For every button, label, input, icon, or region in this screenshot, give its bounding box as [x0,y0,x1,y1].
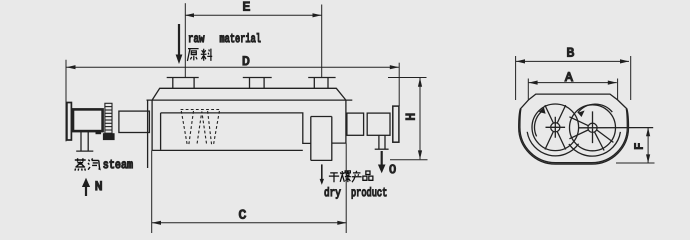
svg-text:raw: raw [188,32,205,46]
top port 1 flange cap [167,77,199,79]
drive shaft housing [119,111,149,132]
motor gearbox body [73,109,103,131]
svg-text:steam: steam [103,158,133,172]
dimension F bottom reference line [616,162,655,164]
dimension F line [646,128,650,163]
svg-text:B: B [567,46,575,61]
dimension A right extension line [617,79,619,100]
svg-text:H: H [404,113,419,121]
left rotor rotation arrow [535,111,543,136]
dimension E line [185,13,322,17]
svg-text:material: material [220,32,261,46]
discharge chute box [311,117,346,161]
dimension D right extension line [398,63,400,106]
dimension H bottom reference line [390,159,428,161]
dashed screw funnel left V [181,111,193,145]
steam inlet flange plate [67,103,72,141]
dimension B right extension line [630,56,632,100]
dimension C line [152,221,347,225]
svg-text:A: A [565,70,573,85]
left end plate [147,100,149,168]
dashed screw top line [181,109,221,111]
vapor outlet arrow O [378,151,386,173]
dimension D line [67,65,399,69]
left rotor hub [551,123,560,132]
motor legs [81,132,88,152]
steam arrow N [82,178,90,196]
right rotor left paddle [569,117,588,139]
svg-text:E: E [243,0,251,15]
dimension B left extension line [515,56,517,100]
top port 3 flange cap [308,77,335,79]
raw material inlet arrow [176,24,183,64]
right rotor crosshair / centre line to F [579,111,654,143]
label 原料 (raw material CN) [187,49,212,61]
casing inner wall [520,109,627,163]
dimension D left extension line [65,60,67,142]
right support box [367,113,390,135]
motor foot line [76,150,93,152]
dimension E left extension line [184,3,186,77]
dimension H top reference line [388,77,427,79]
right support foot line [375,148,389,150]
svg-text:C: C [239,208,247,223]
gear stack ladder [105,103,112,133]
svg-text:D: D [242,54,250,69]
inner panel rectangle [161,113,311,150]
motor black block [96,130,102,134]
svg-text:dry: dry [324,186,341,200]
left rotor top paddle [545,105,566,123]
dry product arrow [320,164,324,185]
svg-text:0: 0 [389,162,396,176]
dimension A left extension line [527,79,529,100]
right rotor hub [588,123,597,132]
top port 3 stems [313,78,315,89]
dashed screw funnel right V [208,111,220,145]
right rotor rotation arrow [578,104,613,113]
trough wall right arc [569,132,621,156]
right rotor lower-right paddle [595,130,614,151]
left rotor bottom paddle [545,132,566,150]
gear stack coupling block [103,133,115,140]
left rotor crosshair [546,117,566,138]
dimension A line [529,81,617,85]
casing outline (side view) [519,94,629,164]
dimension E right extension line [321,5,323,78]
dimension C right extension line [345,143,347,233]
rotor envelope circle right [570,105,616,151]
dryer body shell [147,100,353,150]
top port 2 flange cap [243,77,272,79]
right support legs [379,135,385,149]
dryer lid trapezoid [152,88,346,100]
dimension C left extension line [151,150,153,233]
rotor envelope circle left [532,104,579,151]
label 蒸汽 (steam CN) [75,158,100,170]
right flange plate [393,106,399,142]
trough wall left arc [527,132,578,156]
dimension B line [516,59,629,63]
svg-text:N: N [95,179,103,194]
dimension H line [418,78,422,160]
svg-text:product: product [351,186,387,200]
right bearing box [347,113,364,135]
top port 1 stems [172,78,174,89]
svg-text:F: F [633,143,647,150]
dashed screw middle inverted V [197,112,206,144]
label 干燥产品 (dry product CN) [329,171,373,182]
top port 2 stems [249,78,251,89]
